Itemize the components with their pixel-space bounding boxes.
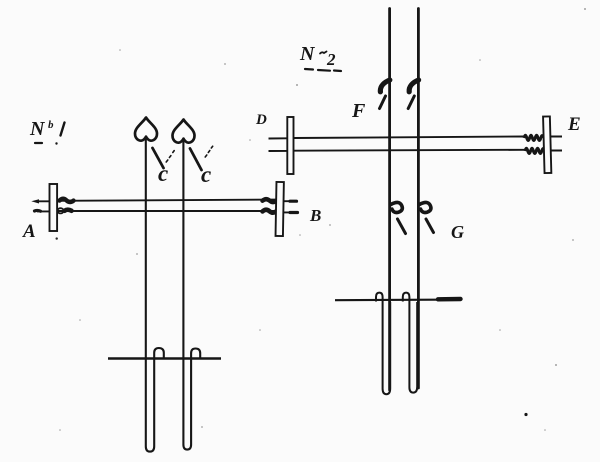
svg-text:b: b	[48, 119, 54, 131]
right tube of fig.2 (curl over bar, U-bend)	[403, 293, 417, 393]
ink dot below cap A	[56, 237, 58, 239]
coil blob bottom wire right of cap A	[58, 208, 64, 213]
coil blob top wire left of cap B	[263, 199, 277, 202]
leader line from heart C2 to label c	[190, 149, 202, 171]
crossbar bottom wire fig.2	[269, 150, 563, 151]
svg-text:B: B	[309, 206, 321, 225]
upper hook on right standpipe	[409, 80, 418, 92]
dotted leader near C1	[166, 151, 174, 162]
end cap D (left terminal plate of fig.2)	[287, 117, 293, 174]
lower hook loop on left standpipe	[391, 202, 403, 212]
figure label No.1	[29, 118, 65, 145]
right tube T2 (vertical with curl over bottom bar and U-bend)	[183, 141, 200, 450]
svg-text:A: A	[22, 221, 36, 242]
svg-text:E: E	[567, 114, 581, 135]
coil winding bottom wire at cap E	[525, 148, 544, 153]
dotted leader near C2	[205, 146, 213, 157]
svg-text:G: G	[451, 222, 464, 242]
heart finial C2 on right tube	[173, 120, 195, 143]
svg-text:F: F	[351, 100, 366, 122]
crossbar top wire fig.1	[36, 200, 298, 202]
end cap E (right terminal plate of fig.2)	[543, 116, 551, 173]
crossbar bottom wire fig.1	[37, 211, 298, 212]
svg-text:N: N	[299, 43, 316, 65]
heart finial C1 on left tube	[135, 118, 157, 141]
left tube of fig.2 (curl over bar, U-bend)	[376, 293, 390, 395]
thick tip of bottom-right stub fig.1	[290, 211, 298, 214]
end cap B (right terminal plate of fig.1)	[276, 182, 284, 236]
thick tip of top-right stub fig.1	[290, 200, 297, 203]
leader line from heart C1 to label c	[153, 148, 164, 168]
figure label No.2	[299, 43, 341, 71]
coil winding top wire at cap E	[524, 135, 543, 140]
left standpipe fig.2	[388, 9, 391, 391]
bottom support bar fig.1	[108, 357, 221, 359]
coil blob bottom wire left of cap B	[263, 210, 277, 213]
bottom support bar fig.2	[335, 299, 461, 302]
lower hook loop on right standpipe	[419, 202, 431, 212]
stray ink dot lower right	[524, 413, 527, 416]
svg-text:D: D	[255, 112, 267, 128]
svg-text:c: c	[158, 161, 168, 186]
upper hook on left standpipe	[380, 80, 389, 92]
thick right end of bottom bar fig.2	[438, 297, 461, 302]
coil blob top wire right of cap A	[60, 199, 74, 202]
right standpipe fig.2	[417, 9, 420, 389]
arrow tip left end of top wire	[31, 199, 39, 203]
svg-text:c: c	[201, 162, 211, 187]
upper tick on right standpipe	[408, 96, 414, 109]
end cap A (left terminal plate of fig.1)	[50, 184, 58, 231]
lower tick on left standpipe	[398, 219, 406, 234]
svg-text:2: 2	[326, 50, 336, 69]
lower tick on right standpipe	[426, 219, 434, 233]
upper tick on left standpipe	[380, 96, 386, 109]
arrow tip left end of bottom wire	[35, 209, 41, 213]
svg-text:N: N	[29, 118, 46, 140]
left tube T1 (vertical with curl over bottom bar and U-bend)	[146, 139, 164, 452]
crossbar top wire fig.2	[269, 137, 563, 139]
